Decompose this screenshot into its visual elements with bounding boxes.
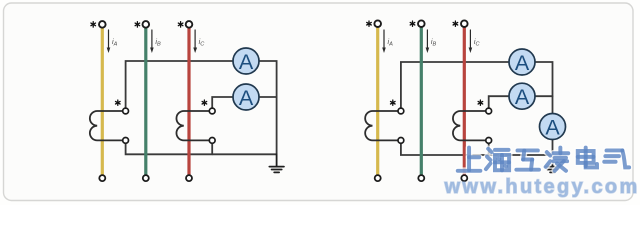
terminal: phase C bottom — [186, 175, 192, 181]
polarity mark CT W1 — [391, 100, 396, 105]
terminal: CT W1 secondary bottom — [398, 138, 404, 144]
polarity mark phase C — [178, 22, 183, 27]
svg-text:www.hutegy.com: www.hutegy.com — [444, 176, 640, 198]
ground (right diagram) — [545, 155, 560, 172]
terminal: phase B bottom — [143, 175, 149, 181]
terminal: CT W2 secondary top — [486, 108, 492, 114]
terminal: CT W1 secondary top — [123, 108, 129, 114]
polarity mark CT W1 — [116, 100, 121, 105]
terminal: phase B top — [418, 20, 425, 27]
phase C line (red) — [463, 27, 466, 175]
svg-text:A: A — [515, 85, 530, 109]
polarity mark phase C — [453, 21, 458, 26]
ground (left diagram) — [269, 154, 284, 172]
polarity mark phase B — [410, 21, 415, 26]
ammeter A2 (right diagram) — [509, 83, 535, 109]
phase C line (red) — [187, 28, 190, 176]
polarity mark CT W2 — [202, 100, 207, 105]
CT W1 coil on phase A — [365, 111, 401, 140]
current arrow iC — [469, 30, 473, 53]
terminal: phase A bottom — [99, 175, 105, 181]
wire: ammeter A2 right to vertical junction — [535, 95, 553, 97]
wire: CT2-A top terminal up and right to ammeter A1 — [401, 62, 509, 109]
terminal: phase A top — [374, 20, 381, 27]
svg-text:A: A — [515, 51, 530, 75]
terminal: CT W1 secondary bottom — [123, 138, 129, 144]
terminal: CT W2 secondary top — [209, 108, 215, 114]
wire: bottom secondary bus — [401, 143, 553, 156]
CT W2 coil on phase C — [176, 111, 212, 140]
current arrow iA — [382, 30, 386, 53]
phase B line (green) — [420, 27, 423, 175]
current arrow iA — [107, 30, 111, 53]
wire: ammeter A1 right to right-side vertical — [259, 61, 277, 154]
terminal: phase B top — [143, 21, 150, 28]
wire: ammeter A3 bottom down to ground — [552, 140, 554, 156]
phase B line (green) — [144, 28, 147, 176]
svg-text:A: A — [239, 50, 254, 74]
CT W2 coil on phase C — [453, 111, 489, 140]
terminal: phase A bottom — [375, 175, 381, 181]
wire: ammeter A2 right to right-side vertical — [259, 96, 277, 98]
ammeter A1 (right diagram) — [509, 49, 535, 75]
phase A line (yellow) — [101, 28, 104, 176]
polarity mark phase B — [135, 22, 140, 27]
wire: CT1-C top terminal up and right to ammeter A2 — [212, 97, 233, 109]
terminal: phase C bottom — [461, 175, 467, 181]
terminal: phase A top — [99, 21, 106, 28]
terminal: CT W1 secondary top — [398, 108, 404, 114]
current arrow iC — [193, 30, 197, 53]
wire: bottom secondary bus — [126, 143, 277, 155]
wire: CT2-C bottom terminal down to bus — [488, 143, 490, 156]
watermark line1 white halo — [458, 148, 629, 171]
current arrow iB — [150, 30, 154, 53]
ammeter A1 (left diagram) — [233, 48, 259, 74]
polarity mark phase A — [91, 22, 96, 27]
svg-text:A: A — [545, 115, 560, 139]
terminal: CT W2 secondary bottom — [486, 138, 492, 144]
watermark line1 blue strokes — [458, 148, 629, 171]
wire: CT1-C bottom terminal down to bus — [211, 143, 213, 155]
wire: ammeter A1 right down to ammeter A3 top — [535, 62, 553, 114]
CT W1 coil on phase A — [90, 111, 126, 140]
polarity mark CT W2 — [478, 100, 483, 105]
terminal: phase C top — [461, 20, 468, 27]
svg-text:A: A — [239, 86, 254, 110]
terminal: phase C top — [186, 21, 193, 28]
terminal: phase B bottom — [418, 175, 424, 181]
terminal: CT W2 secondary bottom — [209, 138, 215, 144]
wire: CT1-A top terminal up and right to ammeter A1 — [126, 61, 233, 109]
ammeter A2 (left diagram) — [233, 84, 259, 110]
ammeter A3 (right diagram) — [540, 114, 566, 140]
phase A line (yellow) — [376, 27, 379, 175]
polarity mark phase A — [367, 21, 372, 26]
wire: CT2-C top terminal up and right to ammeter A2 — [489, 96, 509, 109]
current arrow iB — [426, 30, 430, 53]
